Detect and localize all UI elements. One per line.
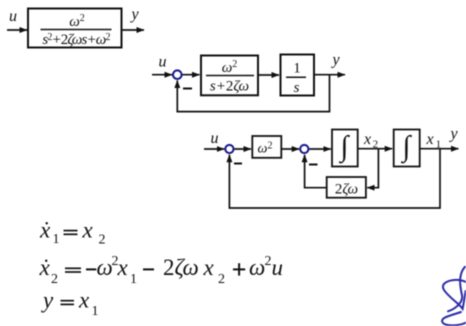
- svg-text:ẋ: ẋ: [39, 217, 51, 242]
- wire: output arrow from G1: [122, 29, 144, 31]
- svg-text:u: u: [159, 54, 167, 71]
- block G4: omega^2 gain: [252, 136, 281, 158]
- block G5: 2*zeta*omega gain: [327, 177, 366, 198]
- svg-text:ω: ω: [97, 255, 113, 280]
- svg-text:y: y: [41, 287, 54, 312]
- svg-text:u: u: [272, 255, 284, 280]
- svg-text:x: x: [78, 287, 90, 312]
- svg-text:s2+2ζωs+ω2: s2+2ζωs+ω2: [42, 32, 110, 48]
- svg-text:x: x: [203, 255, 215, 280]
- svg-text:s: s: [294, 80, 300, 96]
- wire: output arrow from I2: [420, 148, 459, 150]
- svg-text:2: 2: [218, 272, 225, 287]
- scribble stroke 3 (bottom C sweep): [442, 312, 466, 325]
- svg-text:y: y: [448, 126, 458, 143]
- wire: input arrow to summing junction S1: [152, 74, 172, 76]
- svg-text:ẋ: ẋ: [39, 255, 51, 280]
- summing junction S3: [300, 145, 308, 153]
- svg-text:y: y: [330, 52, 340, 69]
- equation 3: y = x1: [41, 287, 99, 318]
- wire: S2 to block G4: [234, 148, 251, 150]
- wire: S3 to integrator I1: [309, 148, 331, 150]
- equation 1: x1dot = x2: [39, 217, 106, 247]
- wire: outer feedback loop diagram 3: [229, 149, 440, 208]
- block I2: integrator: [394, 130, 420, 167]
- svg-text:u: u: [211, 130, 219, 147]
- wire: output arrow from G3: [314, 74, 345, 76]
- wire: inner feedback tap from x2 to block G5: [367, 149, 378, 188]
- scribble stroke 2 (loop: top arc, left hook, diagonal, V up): [443, 280, 466, 309]
- wire: input arrow to summing junction S2: [204, 148, 224, 150]
- svg-text:x2: x2: [363, 131, 378, 151]
- svg-text:y: y: [129, 6, 139, 23]
- wire: G4 to summing junction S3: [282, 148, 300, 150]
- equation 2: x2dot = -w^2 x1 - 2 zeta w x2 + w^2 u: [39, 254, 284, 287]
- minus sign at S2: [234, 163, 242, 165]
- scribble stroke 1 (tall curve hooking down-left): [448, 267, 465, 312]
- svg-text:ω: ω: [249, 255, 265, 280]
- minus sign at S1: [183, 88, 192, 90]
- summing junction S2: [225, 145, 233, 153]
- wire: input arrow to block G1: [7, 29, 27, 31]
- svg-text:2ζω: 2ζω: [163, 255, 199, 280]
- svg-text:1: 1: [92, 304, 99, 319]
- block G1: omega^2/(s^2+2*zeta*omega*s+omega^2): [28, 9, 122, 49]
- svg-text:2ζω: 2ζω: [335, 181, 358, 197]
- svg-text:s+2ζω: s+2ζω: [210, 79, 249, 95]
- svg-text:1: 1: [293, 61, 301, 77]
- svg-text:x: x: [117, 255, 129, 280]
- svg-text:x1: x1: [426, 131, 442, 151]
- svg-text:2: 2: [99, 233, 106, 248]
- summing junction S1: [173, 70, 182, 79]
- svg-text:x: x: [82, 217, 94, 242]
- block G3: 1/s integrator: [281, 55, 315, 97]
- wire: G2 to block G3: [258, 74, 279, 76]
- svg-text:u: u: [9, 8, 17, 25]
- svg-text:2: 2: [265, 254, 272, 269]
- svg-text:2: 2: [51, 272, 58, 287]
- wire: I1 to integrator I2: [358, 148, 393, 150]
- wire: feedback loop diagram 2: [177, 75, 329, 112]
- minus sign at S3: [309, 164, 318, 166]
- block I1: integrator: [332, 130, 358, 167]
- wire: G5 to summing junction S3: [305, 155, 327, 188]
- block G2: omega^2/(s+2*zeta*omega): [201, 56, 258, 96]
- svg-text:1: 1: [53, 232, 60, 247]
- wire: S1 to block G2: [182, 74, 199, 76]
- svg-text:1: 1: [130, 272, 137, 287]
